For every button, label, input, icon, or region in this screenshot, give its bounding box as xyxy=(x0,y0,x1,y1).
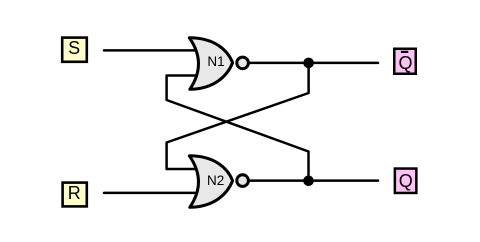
svg-text:R: R xyxy=(68,183,81,203)
svg-text:Q: Q xyxy=(398,53,412,73)
svg-text:S: S xyxy=(68,38,80,58)
svg-text:Q: Q xyxy=(399,171,413,191)
svg-text:N2: N2 xyxy=(207,173,224,188)
svg-text:N1: N1 xyxy=(207,54,224,69)
